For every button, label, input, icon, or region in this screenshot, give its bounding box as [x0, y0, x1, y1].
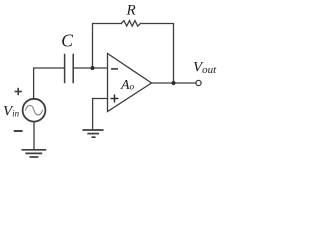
minus sign (inverting input label) — [111, 68, 118, 70]
wire resistor to output node — [141, 24, 174, 84]
wire non-inverting input to ground — [93, 99, 108, 130]
op-amp U1 triangle — [108, 54, 152, 112]
capacitor C — [64, 55, 66, 83]
voltage source V_in circle — [23, 99, 46, 122]
ground (op-amp + input) — [83, 130, 104, 137]
node junction dot (output) — [171, 81, 175, 85]
node junction dot (inverting input) — [90, 66, 94, 70]
ground (source) — [22, 150, 47, 157]
resistor R — [121, 21, 140, 27]
wire capacitor to op-amp inverting input — [73, 67, 107, 69]
minus sign at source — [14, 130, 23, 132]
wire feedback riser — [93, 24, 122, 69]
svg-text:R: R — [126, 3, 136, 19]
plus sign (non-inverting input label) — [111, 95, 119, 103]
wire source to ground — [33, 122, 35, 150]
svg-text:C: C — [61, 30, 73, 50]
wire op-amp output — [152, 82, 196, 84]
sine wave inside source — [26, 105, 43, 115]
wire input horizontal from source riser to capacitor — [34, 68, 65, 98]
terminal V_out open circle — [196, 80, 201, 85]
plus sign at source — [15, 88, 22, 95]
